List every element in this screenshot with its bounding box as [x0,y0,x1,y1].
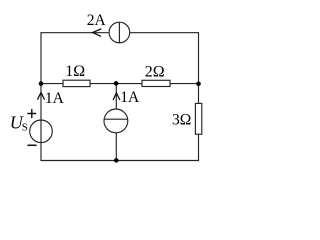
wire right rail lower [198,134,200,160]
svg-text:1A: 1A [120,89,140,106]
svg-text:1Ω: 1Ω [65,63,85,80]
wire middle left segment [41,83,63,85]
junction node left (on middle wire) [39,81,44,86]
svg-text:1A: 1A [45,90,65,107]
minus sign of U_S [28,144,36,146]
svg-text:2Ω: 2Ω [145,63,165,80]
wire top-right segment [130,32,199,34]
wire top-left segment [41,32,109,34]
current source 2A circle [109,22,130,43]
junction node bottom (on bottom wire) [114,158,119,163]
wire right rail upper [198,32,200,103]
wire middle right segment [170,83,199,85]
voltage source U_S circle [30,120,53,143]
junction node right (on middle wire) [196,82,201,87]
resistor R2 2ohm [142,80,170,86]
wire mid vertical upper (junction to current source) [115,84,117,110]
current source 1A circle [104,109,128,133]
svg-text:3Ω: 3Ω [172,112,191,129]
svg-text:S: S [22,121,28,133]
plus sign of U_S [28,110,36,118]
resistor R1 1ohm [63,80,90,86]
wire left rail [40,32,42,160]
junction node middle (on middle wire) [114,81,119,86]
svg-text:2A: 2A [87,12,107,29]
wire bottom [40,160,199,162]
wire mid vertical lower (current source to bottom) [115,133,117,161]
arrow 1A left (points up on left rail) [38,92,45,99]
wire middle center segment [90,83,142,85]
arrow 2A (points left on top wire) [93,29,101,36]
resistor R3 3ohm [195,103,201,134]
arrow 1A middle (points up on mid wire) [113,93,120,100]
